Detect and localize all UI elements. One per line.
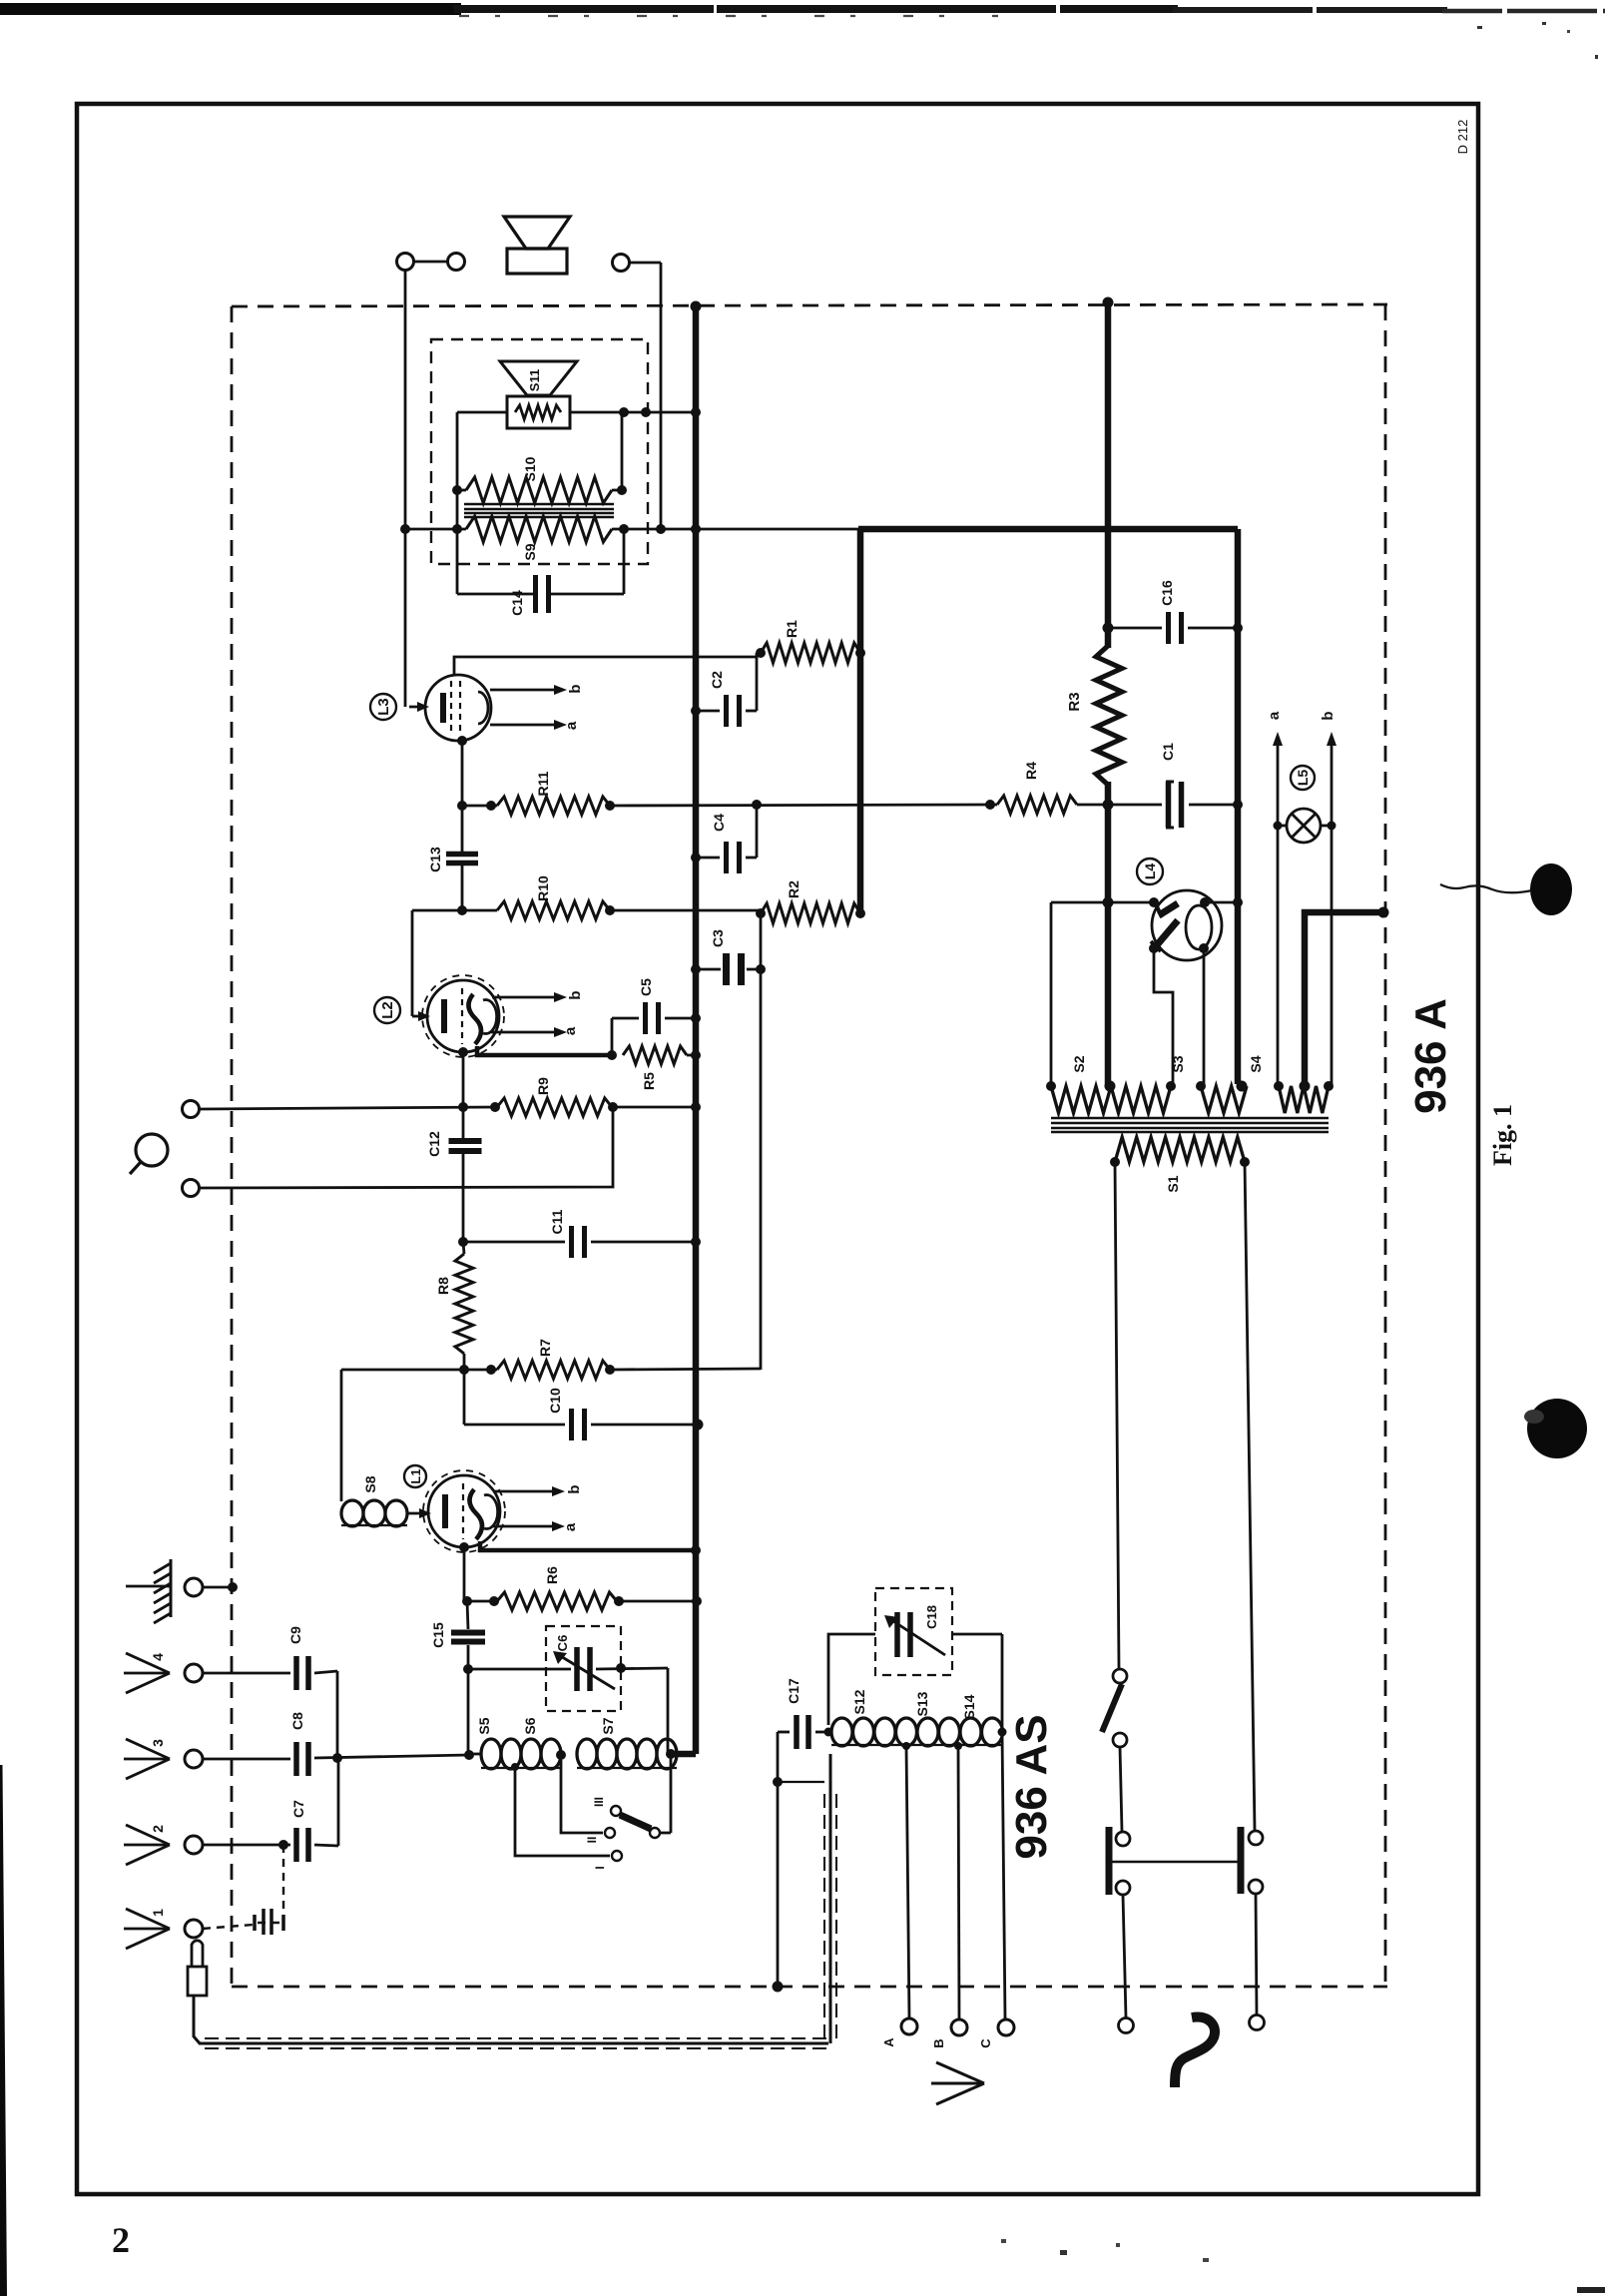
rectifier tube L4 (1152, 890, 1222, 960)
wire to earth (777, 1732, 780, 1987)
svg-text:2: 2 (150, 1825, 166, 1833)
scan artifact: ink blot right margin upper (1530, 863, 1572, 915)
svg-text:R8: R8 (435, 1277, 451, 1295)
scan artifact: ink blot right margin lower (1527, 1399, 1587, 1458)
wire C (1002, 1732, 1005, 2019)
svg-text:C16: C16 (1159, 580, 1175, 606)
svg-text:a: a (562, 1522, 579, 1531)
svg-text:C9: C9 (287, 1626, 303, 1644)
svg-text:R2: R2 (786, 880, 802, 898)
bus to coil (thick) (671, 1751, 696, 1758)
wire (203, 1586, 229, 1589)
svg-text:C18: C18 (924, 1605, 939, 1629)
svg-text:C6: C6 (555, 1635, 570, 1652)
aerial terminal 3 (185, 1750, 203, 1768)
svg-text:S12: S12 (851, 1689, 867, 1714)
svg-text:S3: S3 (1170, 1055, 1186, 1072)
wire tap A (906, 1746, 909, 2018)
wire (412, 1015, 427, 1018)
wire (667, 1668, 670, 1754)
svg-text:1: 1 (150, 1909, 166, 1917)
wire cathode L2 (462, 1052, 465, 1107)
wire (407, 1512, 428, 1515)
svg-text:a: a (562, 1026, 579, 1035)
svg-text:L1: L1 (408, 1468, 423, 1483)
svg-text:I: I (593, 1866, 607, 1869)
wire (660, 263, 663, 529)
wire to mains switch (1115, 1162, 1119, 1668)
aerial terminal 2 (185, 1836, 203, 1854)
wire grid-top (454, 657, 757, 676)
wire (1120, 1747, 1122, 1831)
svg-text:C2: C2 (709, 671, 725, 689)
wire (629, 262, 661, 265)
wire (405, 528, 466, 531)
terminal A (901, 2018, 917, 2034)
svg-text:S8: S8 (362, 1475, 378, 1492)
svg-text:A: A (881, 2037, 896, 2047)
wire (200, 1107, 613, 1188)
aerial terminal 1 (185, 1920, 203, 1938)
svg-text:C13: C13 (427, 847, 443, 872)
screen link wire (778, 1781, 824, 1783)
anode wire (thick) (477, 1046, 612, 1055)
svg-text:C5: C5 (638, 978, 654, 996)
svg-text:R7: R7 (537, 1339, 553, 1357)
output lead b (493, 1490, 555, 1493)
anode supply rail (thick) (857, 529, 864, 913)
screened down-lead cable (194, 1996, 828, 2043)
band switch contact I (515, 1767, 610, 1856)
speaker terminal (397, 254, 414, 271)
aerial symbol 3 (126, 1739, 170, 1759)
svg-text:R3: R3 (1066, 692, 1083, 711)
svg-text:S1: S1 (1165, 1175, 1181, 1192)
wire (336, 1671, 339, 1758)
svg-text:S6: S6 (522, 1717, 538, 1734)
earth terminal (185, 1578, 203, 1596)
svg-text:4: 4 (150, 1653, 166, 1661)
aerial symbol 1 (126, 1909, 170, 1929)
loudspeaker LS (504, 217, 570, 249)
svg-text:C15: C15 (430, 1622, 446, 1648)
wire (413, 261, 448, 264)
scan artifact: left page edge (0, 1765, 7, 2296)
wire (570, 411, 696, 414)
wire (617, 1600, 701, 1603)
feedback wire (760, 913, 763, 1370)
output wire b (1331, 743, 1334, 1084)
svg-text:C10: C10 (547, 1388, 563, 1414)
svg-text:936 AS: 936 AS (1007, 1714, 1056, 1859)
svg-text:R5: R5 (641, 1072, 657, 1090)
wire (1123, 1895, 1126, 2017)
svg-text:L5: L5 (1295, 770, 1311, 787)
anode wire (thick) (480, 1541, 696, 1550)
tuning coil box (467, 1669, 470, 1754)
transformer core (464, 503, 614, 505)
dashed wire (203, 1925, 253, 1929)
svg-text:a: a (563, 721, 580, 730)
rectifier output rail (thick) (1235, 529, 1242, 1084)
pentode L1 (428, 1475, 500, 1547)
svg-text:R11: R11 (535, 771, 551, 796)
svg-text:C12: C12 (426, 1131, 442, 1157)
tube L2 label (374, 997, 400, 1023)
wire (337, 1758, 340, 1846)
HT rail (thick) (1105, 302, 1112, 648)
svg-text:C1: C1 (1160, 743, 1176, 761)
svg-text:III: III (592, 1797, 606, 1807)
svg-text:L4: L4 (1142, 863, 1158, 880)
svg-text:C11: C11 (549, 1209, 565, 1234)
output wire a (1277, 743, 1280, 1084)
wire (409, 706, 426, 709)
mains plug pin (1106, 1827, 1113, 1895)
svg-text:b: b (567, 684, 584, 693)
svg-text:C: C (978, 2038, 993, 2048)
wire cathode (461, 741, 464, 806)
mains transformer core (1051, 1117, 1329, 1119)
dial lamp L5 (1291, 766, 1315, 790)
svg-text:936 A: 936 A (1406, 998, 1455, 1114)
AC mains symbol (1175, 2017, 1215, 2087)
svg-text:R1: R1 (784, 620, 800, 638)
earth symbol (126, 1585, 172, 1588)
wire (404, 270, 407, 707)
wire (660, 1832, 671, 1835)
trimmer enclosure (dashed box) (875, 1588, 952, 1675)
wire cathode L1 (463, 1547, 466, 1601)
output lead a (492, 1525, 555, 1528)
scan artifact: bottom-right mark (1577, 2287, 1605, 2293)
output lead b (492, 996, 557, 999)
wire (756, 805, 759, 858)
wire (612, 528, 858, 531)
wire (612, 1106, 696, 1109)
tube L3 label (370, 694, 396, 720)
tweeter speaker S11 (500, 361, 577, 395)
svg-text:S2: S2 (1071, 1055, 1087, 1072)
svg-text:3: 3 (150, 1739, 166, 1747)
wire (610, 1369, 761, 1370)
tube L1 label (404, 1465, 426, 1487)
wire (1256, 1894, 1257, 2014)
chassis enclosure (dashed box) (232, 304, 1387, 306)
wire (756, 653, 759, 711)
cathode wire (1149, 943, 1159, 953)
aerial symbol (936, 2062, 984, 2083)
svg-text:2: 2 (112, 2220, 130, 2260)
pick-up jack symbol Q (136, 1134, 168, 1166)
wire (340, 1370, 343, 1501)
svg-text:L3: L3 (375, 698, 392, 716)
pick-up terminal Q1 (183, 1101, 200, 1118)
svg-text:R10: R10 (535, 875, 551, 901)
output transformer enclosure (dashed box) (431, 339, 648, 564)
svg-text:S4: S4 (1248, 1055, 1264, 1072)
triode L3 (425, 675, 491, 741)
svg-text:C7: C7 (290, 1800, 306, 1818)
wire (341, 1369, 497, 1372)
output lead a (490, 724, 557, 727)
pentode L2 (427, 980, 499, 1052)
wire tap B (958, 1746, 959, 2019)
svg-text:a: a (1266, 711, 1283, 720)
wire (412, 909, 497, 912)
terminal C (998, 2019, 1014, 2035)
svg-text:II: II (585, 1837, 599, 1844)
svg-text:b: b (567, 990, 584, 999)
pick-up terminal Q2 (183, 1180, 200, 1197)
wire (621, 412, 624, 490)
heater wire (1051, 901, 1156, 904)
scan artifact: top black band (0, 3, 461, 15)
wire (1199, 943, 1209, 953)
speaker terminal (448, 254, 465, 271)
aerial plug (192, 1941, 203, 1968)
band switch contact II (561, 1760, 603, 1833)
svg-text:C8: C8 (289, 1712, 305, 1730)
svg-text:S14: S14 (961, 1694, 977, 1719)
aerial series trimmer (dashed) (282, 1845, 284, 1913)
wire (456, 412, 459, 594)
heater return wire (thick) (1305, 912, 1383, 1084)
speaker terminal (613, 255, 630, 272)
wire (1050, 902, 1053, 1084)
svg-text:S5: S5 (476, 1717, 492, 1734)
aerial symbol 2 (126, 1825, 170, 1845)
svg-text:R9: R9 (535, 1077, 551, 1095)
wire R11 row to R4 (462, 805, 497, 808)
svg-text:S11: S11 (527, 369, 542, 391)
svg-text:S13: S13 (914, 1691, 930, 1716)
aerial terminal 4 (185, 1664, 203, 1682)
trimmer enclosure (dashed box) (546, 1626, 621, 1711)
terminal B (951, 2019, 967, 2035)
wire (457, 411, 507, 414)
svg-text:Fig. 1: Fig. 1 (1488, 1104, 1517, 1166)
mains switch (1113, 1669, 1127, 1683)
output lead b (490, 689, 557, 692)
svg-text:R4: R4 (1023, 762, 1039, 780)
HT feed wire (thick) (858, 526, 1238, 533)
svg-text:C3: C3 (710, 929, 726, 947)
svg-text:C4: C4 (711, 814, 727, 832)
wire grid L2 (411, 910, 414, 1016)
wire (469, 1753, 481, 1756)
svg-text:S9: S9 (522, 543, 538, 560)
wire (1245, 1162, 1255, 1830)
svg-text:B: B (931, 2038, 946, 2047)
ground bus (thick) (693, 306, 700, 1754)
output lead a (491, 1031, 557, 1034)
wire (200, 1107, 497, 1109)
svg-text:S7: S7 (600, 1717, 616, 1734)
svg-text:L2: L2 (379, 1001, 396, 1019)
svg-text:b: b (566, 1484, 583, 1493)
cable riser (829, 1754, 832, 2043)
plug link wire (1112, 1861, 1238, 1863)
wire (623, 529, 626, 594)
mains plug pin (1238, 1827, 1245, 1894)
svg-text:R6: R6 (544, 1566, 560, 1584)
aerial symbol 4 (126, 1653, 170, 1673)
svg-text:D 212: D 212 (1455, 120, 1470, 155)
wire (464, 1600, 497, 1603)
svg-text:b: b (1320, 711, 1337, 720)
tube L4 label (1137, 859, 1163, 884)
svg-text:C17: C17 (786, 1678, 802, 1704)
